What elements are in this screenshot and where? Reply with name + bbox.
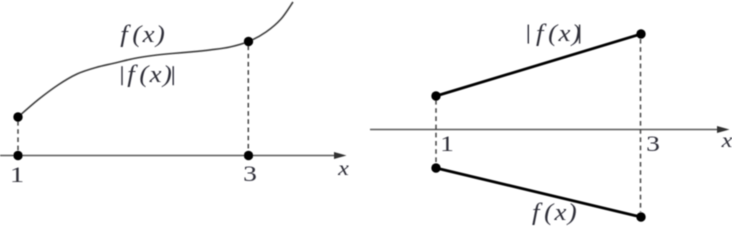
- svg-text:f(x): f(x): [536, 19, 582, 46]
- svg-text:1: 1: [440, 132, 454, 156]
- svg-text:f(x): f(x): [532, 198, 578, 225]
- svg-text:f(x): f(x): [120, 20, 166, 47]
- svg-text:x: x: [337, 156, 349, 179]
- svg-text:x: x: [721, 128, 732, 151]
- svg-text:3: 3: [243, 162, 257, 186]
- svg-text:f(x): f(x): [127, 60, 173, 87]
- svg-text:1: 1: [10, 162, 24, 187]
- svg-text:3: 3: [646, 132, 660, 156]
